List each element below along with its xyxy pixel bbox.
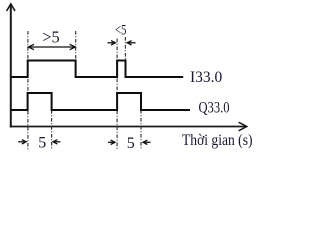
measure arrow >5 (double-headed, between guides A and B) [28,44,75,49]
svg-text:5: 5 [38,135,46,152]
time axis [10,126,246,128]
svg-text:I33.0: I33.0 [190,69,223,86]
guide line E (x=125.4, I falling edge 2) [124,37,126,60]
waveform Q33.0 [11,93,190,110]
time axis arrowhead [239,122,247,131]
bottom-left measure: 5 (Q pulse 1 width) [18,140,60,144]
bottom-right measure: 5 (Q pulse 2 width) [108,140,151,144]
svg-text:Thời gian (s): Thời gian (s) [182,132,253,149]
svg-text:<5: <5 [115,22,126,38]
guide line A (x=28, I/Q rising edge 1) [27,31,29,150]
svg-text:Q33.0: Q33.0 [199,99,230,116]
vertical axis arrowhead [7,4,15,11]
vertical axis [10,5,12,128]
guide line B (x=75.7, I falling edge 1) [75,31,77,60]
svg-text:>5: >5 [42,27,60,46]
waveform I33.0 [11,61,183,78]
measure arrows <5 (outside arrows at guides D and E) [108,41,136,45]
guide line D (x=117, I/Q rising edge 2) [116,39,118,151]
guide line C (x=51.5, Q falling edge 1) [51,110,53,150]
svg-text:5: 5 [127,135,135,152]
guide line F (x=141, Q falling edge 2) [140,110,142,150]
